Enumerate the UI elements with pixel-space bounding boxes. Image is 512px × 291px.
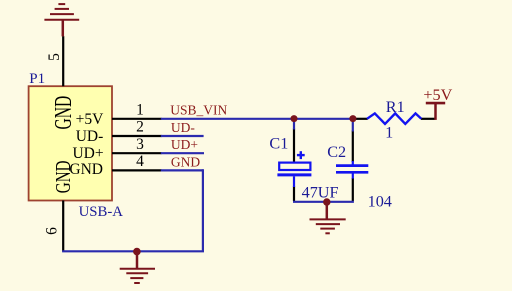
svg-text:5: 5 (46, 53, 63, 61)
svg-text:UD+: UD+ (72, 145, 103, 162)
svg-text:UD-: UD- (171, 120, 195, 135)
svg-text:GND: GND (51, 96, 77, 130)
svg-text:104: 104 (368, 192, 392, 210)
svg-text:+5V: +5V (76, 111, 104, 128)
svg-text:USB-A: USB-A (79, 204, 124, 220)
svg-text:GND: GND (51, 160, 74, 193)
svg-text:1: 1 (136, 102, 144, 119)
svg-text:2: 2 (136, 119, 144, 136)
svg-text:C2: C2 (327, 143, 346, 161)
svg-text:UD+: UD+ (171, 137, 198, 152)
svg-text:4: 4 (136, 153, 144, 170)
svg-text:USB_VIN: USB_VIN (170, 103, 227, 118)
svg-text:GND: GND (69, 161, 103, 178)
svg-text:C1: C1 (269, 135, 288, 153)
svg-text:3: 3 (136, 136, 144, 153)
svg-text:R1: R1 (386, 98, 405, 116)
svg-text:1: 1 (385, 123, 393, 141)
svg-text:P1: P1 (29, 71, 45, 87)
svg-text:GND: GND (171, 154, 200, 169)
svg-text:+5V: +5V (423, 86, 452, 104)
svg-text:UD-: UD- (76, 128, 104, 145)
svg-text:47UF: 47UF (302, 184, 339, 202)
svg-text:6: 6 (44, 227, 61, 235)
